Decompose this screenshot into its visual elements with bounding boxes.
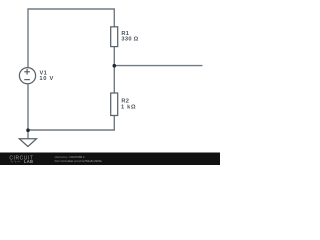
svg-text:1 kΩ: 1 kΩ: [121, 105, 136, 111]
svg-text:LAB: LAB: [24, 159, 33, 164]
svg-text:htto://circuitlab.corn/c/a784a: htto://circuitlab.corn/c/a784a8u4999e: [55, 159, 103, 163]
svg-text:10 V: 10 V: [39, 76, 54, 82]
svg-text:330 Ω: 330 Ω: [121, 37, 138, 43]
svg-text:∿∿⎓: ∿∿⎓: [10, 160, 21, 164]
